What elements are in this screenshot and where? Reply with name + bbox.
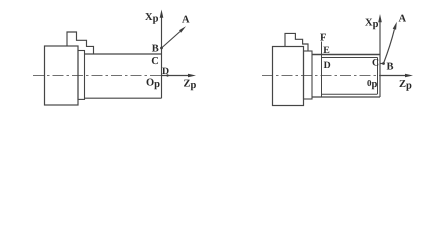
svg-text:C: C <box>372 58 379 69</box>
A arrowhead <box>179 26 186 33</box>
svg-text:Op: Op <box>146 78 160 91</box>
Zp arrowhead <box>188 74 196 78</box>
chuck <box>45 46 79 105</box>
inner finished contour top <box>322 57 378 59</box>
workpiece bottom edge <box>312 96 380 98</box>
Zp axis <box>380 75 406 77</box>
chuck jaw <box>78 51 85 100</box>
workpiece top edge <box>312 54 380 56</box>
svg-text:A: A <box>182 15 190 26</box>
svg-text:D: D <box>324 60 331 71</box>
workpiece top edge <box>85 53 162 55</box>
tool turret staircase <box>67 32 94 54</box>
inner finished contour right <box>377 58 379 95</box>
workpiece bottom edge <box>85 97 162 99</box>
svg-text:B: B <box>387 62 394 73</box>
svg-text:E: E <box>323 45 330 56</box>
inner finished contour bottom <box>322 93 378 95</box>
path B to A <box>384 29 395 63</box>
chuck jaw <box>304 51 313 99</box>
Xp arrowhead right <box>378 14 382 22</box>
node D dot <box>166 74 168 76</box>
node B dot right <box>382 62 385 65</box>
labels left figure <box>145 12 197 91</box>
centerline <box>33 75 191 77</box>
node B dot <box>160 47 163 50</box>
svg-text:Xp: Xp <box>145 12 159 25</box>
svg-text:C: C <box>151 56 159 67</box>
Zp axis <box>162 75 190 77</box>
chuck <box>273 47 304 106</box>
svg-text:A: A <box>399 14 407 25</box>
path B to A <box>162 32 181 49</box>
A arrowhead right <box>393 22 397 30</box>
labels right figure <box>320 14 412 92</box>
Xp axis / end face <box>379 21 381 97</box>
node B tick <box>380 63 384 65</box>
Zp arrowhead right <box>405 74 413 78</box>
centerline <box>262 75 407 77</box>
Xp axis / end face <box>161 17 163 99</box>
svg-text:Xp: Xp <box>365 18 379 31</box>
svg-text:Zp: Zp <box>399 79 412 92</box>
svg-text:D: D <box>162 66 169 77</box>
tool turret staircase <box>285 33 308 51</box>
svg-text:Zp: Zp <box>184 79 197 92</box>
Xp arrowhead <box>160 10 164 18</box>
svg-text:F: F <box>320 33 326 44</box>
svg-text:B: B <box>152 43 159 54</box>
plunge line F-E <box>321 42 323 97</box>
